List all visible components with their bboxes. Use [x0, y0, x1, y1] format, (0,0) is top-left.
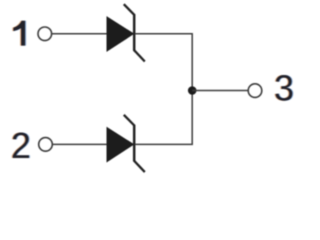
- terminal circle pin 1: [38, 27, 52, 41]
- terminal circle pin 2: [39, 138, 53, 152]
- pin label 3: [273, 67, 295, 108]
- wire pin1 to D1 anode: [52, 33, 107, 35]
- wire pin2 to D2 anode: [53, 143, 108, 145]
- svg-text:2: 2: [11, 125, 31, 166]
- zener diode D2: [107, 115, 145, 172]
- pin label 1: [12, 21, 26, 46]
- junction node dot: [188, 86, 197, 95]
- wire node to pin 3: [192, 90, 248, 92]
- wire D1 cathode to corner and down to node: [135, 34, 192, 91]
- wire D2 cathode to corner and up to node: [135, 91, 192, 145]
- terminal circle pin 3: [248, 84, 262, 98]
- pin label 2: [10, 125, 32, 166]
- svg-text:3: 3: [274, 67, 294, 108]
- zener diode D1: [107, 4, 145, 61]
